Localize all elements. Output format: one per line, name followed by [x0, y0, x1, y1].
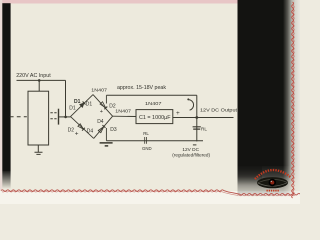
wire positive rail drop [196, 95, 198, 141]
svg-text:RL: RL [143, 131, 149, 136]
svg-text:C1 = 1000µF: C1 = 1000µF [139, 115, 171, 121]
wire bridge top-left edge [71, 95, 94, 117]
svg-text:approx. 15-18V peak: approx. 15-18V peak [117, 85, 166, 91]
wire positive rail top [106, 94, 196, 96]
wire center tap [38, 80, 40, 91]
svg-text:+: + [100, 109, 103, 115]
svg-text:1N407: 1N407 [115, 109, 131, 114]
transformer core dashes right [50, 113, 56, 119]
node secondary junction [64, 116, 67, 119]
wire bridge top tap vertical [105, 95, 107, 103]
polarity minus [193, 144, 197, 146]
wire C1 to output [173, 117, 234, 119]
svg-text:+: + [176, 110, 180, 117]
wire bridge bottom-left edge [71, 117, 94, 139]
wire bridge top-right edge [93, 95, 113, 117]
capacitor CRL [193, 127, 201, 129]
diode D3 [98, 125, 105, 133]
ground (bridge) [100, 143, 113, 146]
svg-text:GND: GND [142, 146, 152, 151]
resistor RL (in-rail marks) [145, 137, 147, 144]
svg-text:D2: D2 [68, 127, 75, 133]
diode D4 [78, 124, 85, 131]
diode D1 [80, 101, 86, 107]
ground (transformer) [35, 145, 43, 154]
svg-text:220V AC Input: 220V AC Input [16, 73, 51, 79]
svg-text:D1: D1 [86, 101, 93, 107]
transformer T1 secondary plate [58, 109, 60, 125]
wire AC drop to secondary junction [65, 80, 67, 117]
svg-text:D1: D1 [69, 106, 76, 112]
wire bridge to C1 [113, 115, 136, 117]
wire ground rail [106, 140, 203, 142]
svg-text:D4: D4 [97, 119, 104, 125]
svg-text:(regulated/filtered): (regulated/filtered) [172, 152, 210, 157]
svg-text:12V DC Output: 12V DC Output [200, 107, 238, 113]
node AC junction [38, 79, 41, 82]
svg-text:RL: RL [201, 126, 207, 131]
capacitor C1 (box) [136, 110, 173, 124]
svg-text:+: + [75, 131, 79, 138]
wire bridge bottom drop [105, 128, 107, 141]
node output junction [195, 116, 198, 119]
annotation curved arrow [187, 98, 193, 110]
transformer core dashed line left [10, 116, 27, 118]
wire bridge bottom-right edge [94, 116, 113, 138]
diode D2 [100, 102, 108, 110]
svg-text:1N407: 1N407 [145, 101, 162, 106]
svg-text:1N407: 1N407 [91, 88, 107, 93]
svg-text:D1: D1 [74, 99, 81, 105]
wire AC input top [17, 79, 66, 81]
svg-text:D4: D4 [87, 129, 94, 135]
svg-text:D3: D3 [110, 127, 117, 133]
wire secondary to bridge [59, 116, 71, 118]
transformer T1 primary winding [28, 91, 49, 145]
